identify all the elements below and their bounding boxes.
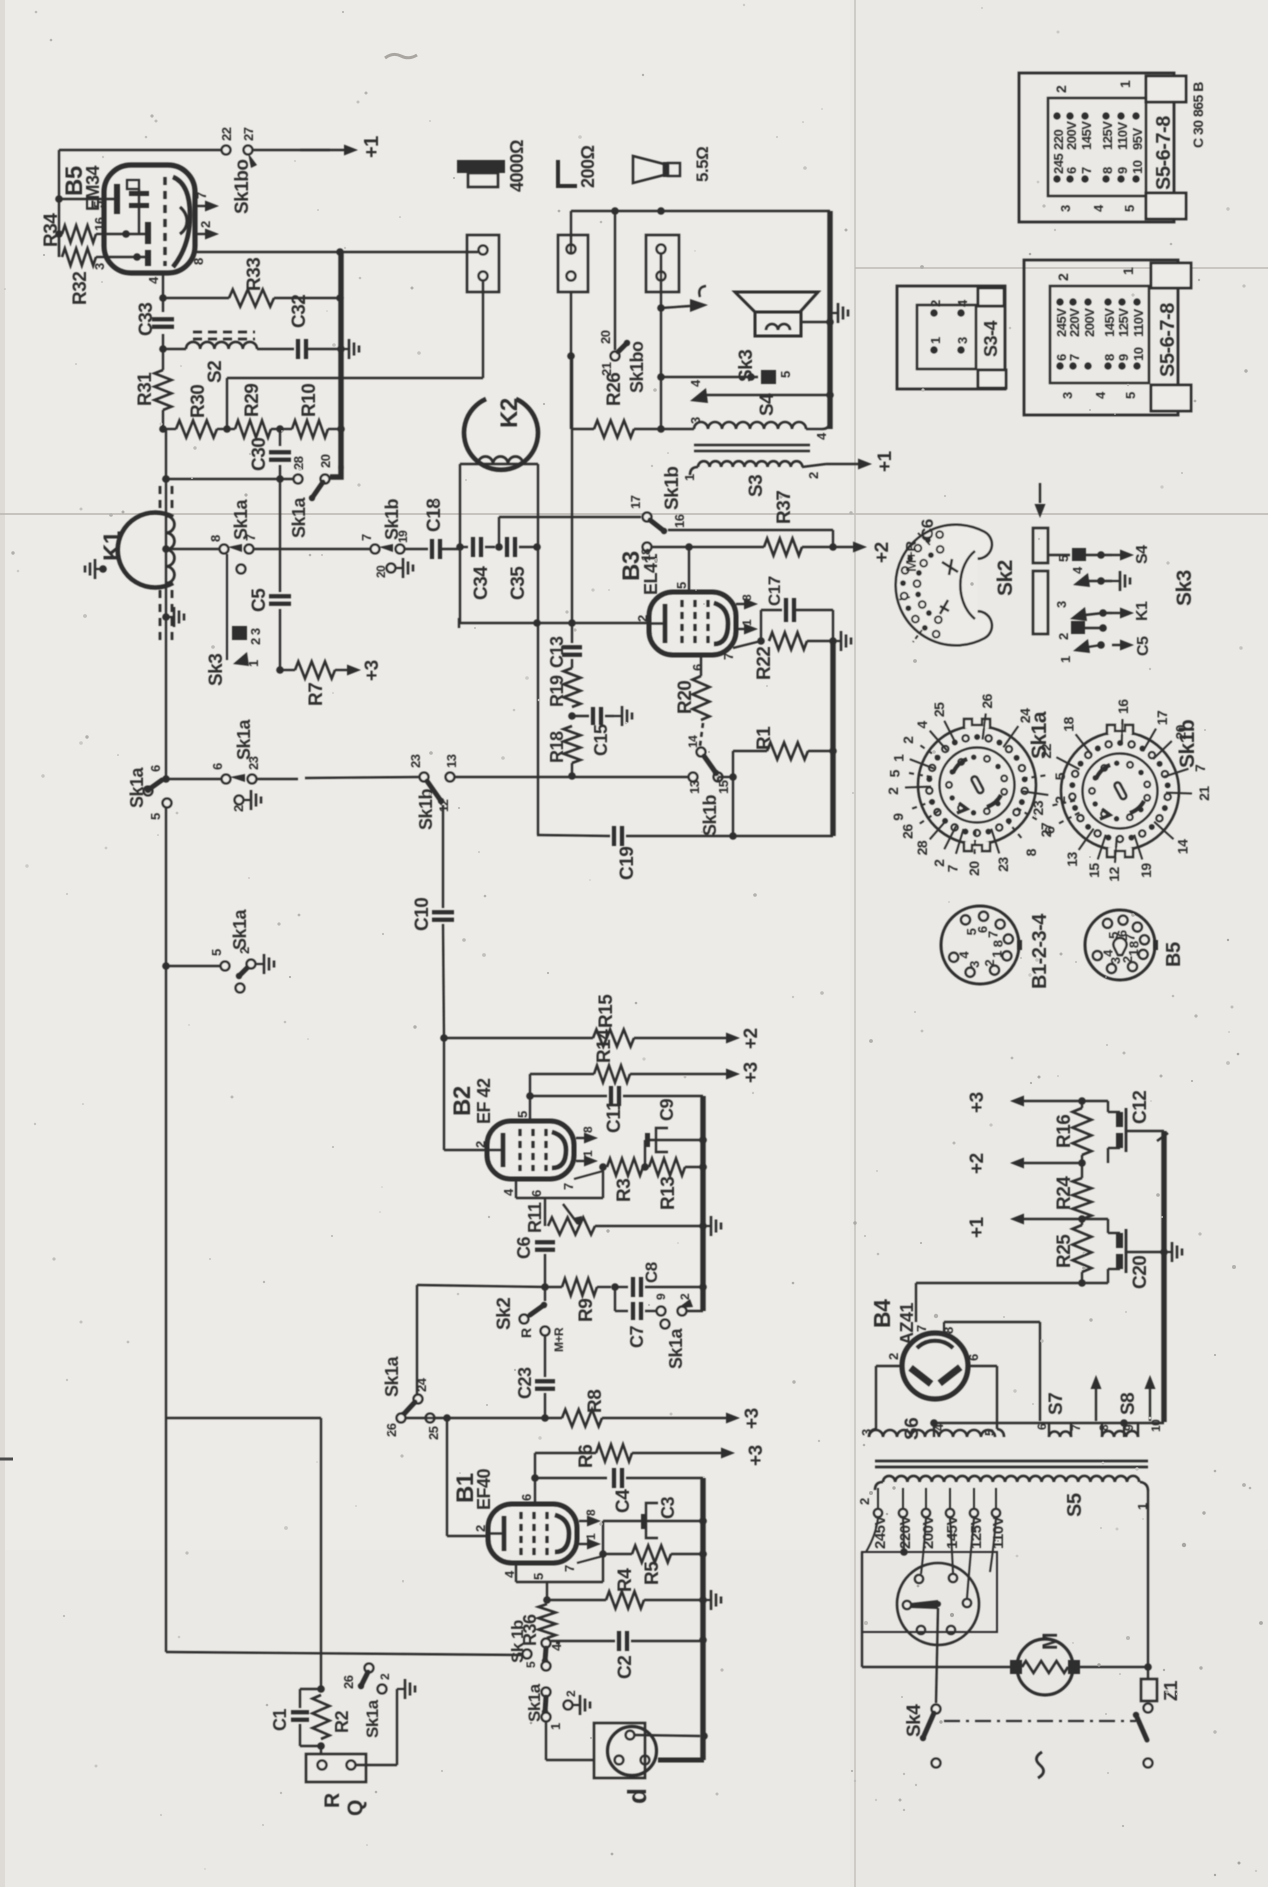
heater rail y1423 (934, 1422, 1164, 1424)
left main bus (165, 429, 167, 779)
svg-text:S2: S2 (205, 361, 226, 383)
svg-text:R26: R26 (604, 373, 625, 406)
svg-text:2: 2 (635, 615, 650, 622)
svg-text:R30: R30 (188, 385, 209, 418)
ground below K1 (162, 613, 170, 621)
svg-text:EF 42: EF 42 (474, 1078, 494, 1124)
wire R25 to B4 pin7 (916, 1282, 1082, 1284)
motor M (1017, 1639, 1073, 1695)
svg-text:R33: R33 (244, 258, 265, 291)
svg-text:26: 26 (384, 1423, 399, 1437)
svg-text:20: 20 (598, 330, 613, 344)
fuse Z1 (1141, 1679, 1157, 1701)
svg-text:8: 8 (1100, 167, 1115, 174)
Sk3 plug strip (1039, 483, 1041, 503)
svg-text:C7: C7 (627, 1326, 647, 1348)
capacitor C1 branch (300, 1688, 321, 1690)
svg-text:R29: R29 (242, 384, 263, 417)
capacitor C8 (615, 1286, 628, 1288)
speaker diode arrow (661, 306, 690, 308)
svg-text:15: 15 (716, 780, 731, 794)
svg-text:7: 7 (562, 1565, 577, 1572)
grid wire y623 into pin2 (459, 622, 649, 624)
wire Sk1a 28 20 row (166, 478, 294, 480)
pin 2 arrow of B5 (195, 233, 206, 235)
svg-text:5: 5 (91, 201, 106, 208)
svg-text:2: 2 (198, 221, 213, 228)
svg-text:R20: R20 (675, 681, 696, 714)
svg-text:22: 22 (219, 127, 234, 141)
tube socket B1-2-3-4 (941, 906, 1019, 984)
svg-text:Sk1b: Sk1b (416, 788, 436, 830)
svg-text:R1: R1 (754, 726, 775, 750)
grid wire from Sk1a25 junction (446, 1418, 448, 1536)
svg-text:14: 14 (686, 735, 700, 748)
electrolytic C9 loop (644, 1140, 646, 1167)
svg-text:Sk1b: Sk1b (700, 794, 720, 836)
svg-text:7: 7 (944, 864, 960, 872)
svg-text:Sk2: Sk2 (994, 560, 1017, 596)
svg-text:23: 23 (995, 857, 1011, 872)
switch Sk1bo 20 21 (611, 352, 620, 361)
detector wire row y549 (166, 548, 220, 550)
tube B2 EF42 (487, 1121, 574, 1179)
svg-text:Sk1a: Sk1a (127, 766, 147, 808)
svg-text:2: 2 (473, 1141, 488, 1148)
wire y1038 R15 +2 (444, 1037, 593, 1039)
svg-text:Sk3: Sk3 (206, 654, 227, 686)
switch Sk1b 7 19 (371, 545, 380, 554)
pin5 riser (529, 1074, 531, 1121)
svg-text:C17: C17 (765, 576, 784, 606)
svg-text:8: 8 (208, 535, 223, 542)
svg-text:18: 18 (1060, 717, 1076, 732)
svg-text:M+R: M+R (552, 1327, 566, 1352)
svg-text:16: 16 (672, 514, 687, 528)
svg-text:Sk1a: Sk1a (382, 1355, 402, 1397)
svg-text:3: 3 (955, 337, 970, 344)
svg-text:R: R (321, 1793, 344, 1808)
tube B5 EM34 (104, 165, 195, 273)
svg-text:C18: C18 (424, 499, 445, 532)
connector box S5-6-7-8 upper (1019, 73, 1174, 222)
svg-text:+2: +2 (967, 1153, 988, 1174)
svg-text:3: 3 (1060, 392, 1075, 399)
riser to output wire (226, 378, 228, 429)
svg-text:R8: R8 (585, 1390, 606, 1413)
svg-text:Sk1a: Sk1a (666, 1327, 686, 1369)
pin 1 arrow B3 (736, 628, 745, 630)
svg-text:22: 22 (1038, 743, 1054, 758)
svg-text:EL41: EL41 (641, 553, 661, 595)
svg-text:6: 6 (1035, 1423, 1049, 1430)
svg-text:26: 26 (899, 824, 915, 839)
svg-text:2: 2 (886, 1353, 901, 1360)
svg-text:C32: C32 (289, 295, 310, 328)
switch Sk1b 17 16 (643, 513, 652, 522)
svg-text:2: 2 (885, 787, 901, 795)
svg-text:17: 17 (628, 495, 643, 509)
svg-text:17: 17 (1154, 710, 1170, 725)
antenna coil K1 (118, 513, 173, 588)
svg-text:4000Ω: 4000Ω (507, 140, 527, 192)
svg-text:7: 7 (359, 534, 374, 541)
svg-text:S5-6-7-8: S5-6-7-8 (1153, 116, 1175, 190)
svg-text:13: 13 (1064, 852, 1080, 867)
svg-text:1: 1 (682, 474, 697, 481)
wire +1 top rail from B5 (59, 149, 222, 151)
resistor R34 (62, 226, 96, 243)
riser to Sk1a24 (416, 1285, 418, 1394)
pin1 arrow B2 (576, 1160, 585, 1162)
svg-text:8: 8 (1102, 354, 1117, 361)
wire to Sk1b 17 (498, 517, 500, 547)
svg-text:7: 7 (1069, 1424, 1083, 1431)
svg-text:Sk1b: Sk1b (382, 498, 402, 540)
tube socket B5 (1085, 910, 1155, 980)
thick bus mid (700, 1096, 705, 1311)
winding S7 (1048, 1423, 1050, 1437)
svg-text:5: 5 (524, 1661, 538, 1668)
capacitor C33 (162, 298, 164, 312)
pin8 arrow B2 (576, 1137, 585, 1139)
connector box 1 (467, 235, 499, 292)
svg-text:Sk1a: Sk1a (230, 908, 250, 950)
svg-text:5: 5 (515, 1111, 530, 1118)
svg-text:+1: +1 (967, 1216, 988, 1238)
svg-text:Sk1a: Sk1a (525, 1683, 544, 1722)
svg-text:6: 6 (690, 664, 705, 671)
svg-text:+2: +2 (741, 1028, 762, 1049)
svg-text:R14: R14 (594, 1029, 615, 1063)
svg-text:110V: 110V (1131, 309, 1146, 337)
svg-text:R18: R18 (547, 731, 567, 763)
svg-text:20: 20 (374, 565, 388, 578)
capacitor C32 (257, 348, 294, 350)
svg-text:9: 9 (654, 1293, 668, 1300)
S4 core (694, 444, 810, 447)
pin 7 arrow of B5 (195, 205, 206, 207)
small speaker icon 5.5ohm (633, 156, 664, 183)
C11 screen cap (530, 1095, 607, 1097)
switch Sk1bo contacts 22 27 (222, 146, 231, 155)
connector Sk2 (910, 539, 978, 631)
cathode wire into B5 (59, 198, 116, 200)
contact 20 with ground (387, 564, 396, 573)
arrow +3 top (1023, 1100, 1082, 1102)
svg-text:S4: S4 (1134, 545, 1151, 564)
svg-text:S7: S7 (1046, 1393, 1067, 1415)
K2 inner loops (478, 457, 523, 465)
tube B4 AZ41 (902, 1333, 968, 1399)
svg-text:R15: R15 (596, 994, 617, 1028)
wire from S5 pin1 down (1140, 1482, 1148, 1491)
wire pin4 (162, 273, 164, 298)
tube B1 EF40 (488, 1504, 577, 1563)
mains link dash-dot (944, 1720, 1136, 1722)
svg-text:6: 6 (966, 1354, 981, 1361)
svg-text:C30: C30 (249, 438, 270, 471)
svg-text:7: 7 (1067, 354, 1082, 361)
svg-text:5.5Ω: 5.5Ω (693, 147, 712, 182)
svg-text:7: 7 (194, 192, 209, 199)
resistor R24 vertical (1073, 1178, 1092, 1219)
svg-text:2: 2 (1056, 633, 1071, 640)
svg-text:C8: C8 (642, 1262, 661, 1283)
svg-text:2: 2 (900, 736, 916, 744)
svg-text:EF40: EF40 (474, 1468, 494, 1510)
S3 secondary (690, 467, 698, 475)
svg-text:3: 3 (967, 961, 982, 968)
Sk3 pin3 to K1 (1070, 607, 1087, 621)
thick bus lower (700, 1478, 705, 1760)
resistor R8 to +3 (545, 1417, 562, 1419)
svg-text:C15: C15 (591, 724, 611, 756)
contact 2 with ground (235, 796, 244, 805)
svg-text:7: 7 (986, 931, 1001, 938)
tube B3 EL41 (649, 592, 736, 655)
svg-text:R32: R32 (70, 272, 91, 305)
4000 ohm jack icon (457, 160, 505, 173)
switch Sk1a 5 6 (144, 787, 153, 796)
svg-text:C1: C1 (270, 1709, 290, 1731)
heater winding S6 (869, 1429, 876, 1437)
selector box (862, 1552, 997, 1632)
capacitor C20 electrolytic (1082, 1218, 1108, 1220)
svg-text:8: 8 (1127, 941, 1142, 948)
svg-text:5: 5 (1123, 392, 1138, 399)
resistor R10 (280, 428, 292, 430)
svg-text:1: 1 (891, 754, 907, 762)
svg-text:B4: B4 (869, 1299, 895, 1328)
svg-text:2: 2 (564, 1690, 578, 1697)
pickup connector d (594, 1723, 645, 1778)
svg-text:S5: S5 (1064, 1493, 1086, 1517)
svg-text:1: 1 (1058, 656, 1073, 663)
svg-text:2: 2 (857, 1498, 872, 1505)
svg-text:Sk2: Sk2 (494, 1298, 515, 1330)
svg-text:R9: R9 (576, 1299, 597, 1322)
capacitor C4 (535, 1477, 607, 1479)
svg-text:2: 2 (806, 472, 821, 479)
wire to ground (356, 1764, 397, 1766)
svg-text:12: 12 (1106, 867, 1122, 882)
voltage taps (877, 1488, 879, 1508)
svg-text:8: 8 (740, 594, 754, 601)
connector box S5-6-7-8 lower (1024, 260, 1178, 415)
cathode frame under B2 (515, 1179, 517, 1198)
svg-text:10: 10 (1130, 160, 1145, 174)
voltage selector disc (897, 1563, 979, 1645)
svg-text:M+R: M+R (903, 541, 920, 572)
arrow +2 (833, 546, 854, 548)
svg-text:AZ41: AZ41 (897, 1302, 917, 1345)
riser from y1418 to RQ (320, 1418, 322, 1689)
svg-text:26: 26 (341, 1675, 356, 1689)
arrow +2 (1023, 1162, 1082, 1164)
capacitor C17 (760, 610, 762, 641)
svg-text:R7: R7 (306, 683, 327, 706)
svg-text:B5: B5 (1163, 942, 1185, 967)
svg-text:Sk 1b: Sk 1b (508, 1620, 527, 1663)
tap wires into selector (866, 1518, 878, 1552)
riser to B3 pin5 (688, 547, 690, 592)
switch Sk1a 8 7 (220, 545, 229, 554)
svg-text:7: 7 (1079, 167, 1094, 174)
svg-text:1: 1 (1117, 80, 1133, 88)
resistor R5 (632, 1546, 671, 1563)
pin2 wire to S6 (876, 1365, 902, 1367)
svg-text:3: 3 (688, 417, 703, 424)
mains row to motor (862, 1666, 1012, 1668)
resistor R13 (649, 1159, 685, 1176)
svg-text:C5: C5 (249, 588, 270, 612)
switch Sk2 R M+R (530, 1305, 544, 1315)
svg-text:R31: R31 (135, 372, 156, 406)
Sk3 pin 4 triangle (690, 388, 708, 403)
grid riser into B2 (443, 1038, 445, 1150)
svg-text:R25: R25 (1054, 1234, 1075, 1268)
svg-text:S3-4: S3-4 (981, 320, 1001, 357)
svg-text:R22: R22 (754, 647, 775, 680)
svg-text:5: 5 (148, 813, 163, 820)
svg-text:5: 5 (1122, 205, 1137, 212)
svg-text:1: 1 (928, 337, 943, 344)
svg-text:9: 9 (1116, 354, 1131, 361)
svg-text:C34: C34 (471, 566, 492, 600)
svg-text:110V: 110V (990, 1516, 1007, 1549)
svg-text:1: 1 (584, 1533, 598, 1540)
riser box3 down (660, 253, 662, 430)
arrow +1 from S3 (826, 463, 859, 465)
svg-text:10: 10 (1131, 347, 1146, 361)
svg-text:8: 8 (191, 258, 206, 265)
pin7 to R22 node (733, 641, 761, 648)
svg-text:R2: R2 (332, 1711, 352, 1733)
arrow +1 (1023, 1218, 1082, 1220)
svg-text:3: 3 (92, 263, 107, 270)
mains tilde (1036, 1752, 1043, 1778)
svg-text:2: 2 (678, 1293, 692, 1300)
switch Sk1a 24 26 25 (414, 1395, 423, 1404)
svg-text:14: 14 (1174, 839, 1190, 854)
svg-text:20: 20 (966, 861, 982, 876)
K1 core dashes (159, 486, 162, 512)
svg-text:8: 8 (991, 940, 1006, 947)
svg-text:13: 13 (444, 754, 459, 768)
svg-text:S3: S3 (746, 475, 767, 497)
svg-text:C20: C20 (1130, 1256, 1151, 1289)
svg-text:R37: R37 (774, 491, 795, 524)
top rail y211 (570, 211, 572, 253)
svg-text:25: 25 (426, 1426, 441, 1440)
switch Sk1a 1 contact (542, 1688, 551, 1697)
output transformer S4 primary (661, 428, 694, 430)
svg-text:16: 16 (1115, 699, 1131, 714)
cathode node and R4 (546, 1582, 548, 1600)
svg-text:+1: +1 (361, 136, 383, 158)
ground bus right (1161, 1131, 1166, 1422)
svg-text:+3: +3 (741, 1062, 762, 1083)
svg-text:C10: C10 (412, 898, 433, 931)
S2 core dashes (193, 331, 255, 334)
svg-text:125V: 125V (1116, 308, 1131, 337)
svg-text:5: 5 (1056, 555, 1071, 562)
svg-text:+2: +2 (872, 542, 893, 563)
svg-text:C12: C12 (1130, 1091, 1151, 1124)
wire y1074 R14 +3 (530, 1073, 594, 1075)
svg-text:C33: C33 (136, 303, 157, 336)
left bus for B5 (58, 150, 60, 257)
rotary wafer Sk1a (918, 726, 1036, 844)
detector chain C13 R19 C15 R18 (571, 356, 573, 623)
svg-text:8: 8 (941, 1327, 956, 1334)
svg-text:R19: R19 (547, 675, 567, 707)
svg-text:5: 5 (778, 371, 793, 378)
svg-text:6: 6 (148, 765, 163, 772)
svg-text:Sk3: Sk3 (1173, 570, 1196, 606)
heater arrows (1095, 1388, 1097, 1421)
K1 coupling coil (166, 516, 174, 583)
svg-text:1: 1 (740, 619, 754, 626)
svg-text:8: 8 (581, 1126, 595, 1133)
capacitor C6 (535, 1240, 555, 1244)
svg-text:8: 8 (1023, 848, 1039, 856)
svg-text:C6: C6 (514, 1237, 534, 1259)
svg-text:C3: C3 (658, 1497, 678, 1519)
switch Sk1b 23 13 12 (420, 773, 429, 782)
primary winding S5 (875, 1482, 883, 1490)
svg-text:220V: 220V (897, 1515, 914, 1549)
svg-text:Sk1b: Sk1b (662, 467, 683, 510)
Sk3 pin4 triangle to ground (1073, 573, 1090, 587)
svg-text:26: 26 (979, 693, 995, 708)
svg-text:13: 13 (687, 780, 702, 794)
svg-text:23: 23 (1030, 800, 1046, 815)
svg-text:K2: K2 (496, 398, 523, 428)
svg-text:4: 4 (914, 721, 930, 729)
svg-text:R: R (518, 1328, 534, 1338)
svg-text:125V: 125V (968, 1515, 985, 1549)
svg-text:R4: R4 (615, 1568, 636, 1592)
potentiometer R11 (544, 1198, 546, 1226)
svg-text:110V: 110V (1115, 122, 1130, 150)
ground at K1 left (99, 565, 107, 573)
svg-text:9: 9 (890, 813, 906, 821)
wire y1418 row (166, 1417, 321, 1419)
resistor row R30 (159, 425, 167, 433)
switch at Z1 (1136, 1715, 1147, 1740)
winding S8 (1101, 1423, 1103, 1437)
electrolytic C3 loop (602, 1521, 604, 1554)
resistor R3 (607, 1159, 643, 1176)
svg-text:Q: Q (344, 1800, 367, 1816)
thick bus from pin8 line down to Sk1a20 (338, 252, 343, 469)
svg-text:S8: S8 (1118, 1393, 1139, 1415)
svg-text:6: 6 (529, 1190, 544, 1197)
svg-text:1: 1 (246, 660, 261, 667)
svg-text:1: 1 (548, 1723, 563, 1730)
wire 13 to 13 (455, 776, 688, 778)
wire y1285 grid feed (417, 1285, 546, 1287)
svg-text:B2: B2 (449, 1086, 476, 1116)
svg-text:200V: 200V (1082, 308, 1097, 337)
pin1 arrow B1 (579, 1543, 588, 1545)
resistor R22 (769, 633, 807, 650)
ground at C32 (341, 348, 349, 350)
svg-text:145V: 145V (1102, 308, 1117, 337)
svg-text:125V: 125V (1100, 121, 1115, 150)
